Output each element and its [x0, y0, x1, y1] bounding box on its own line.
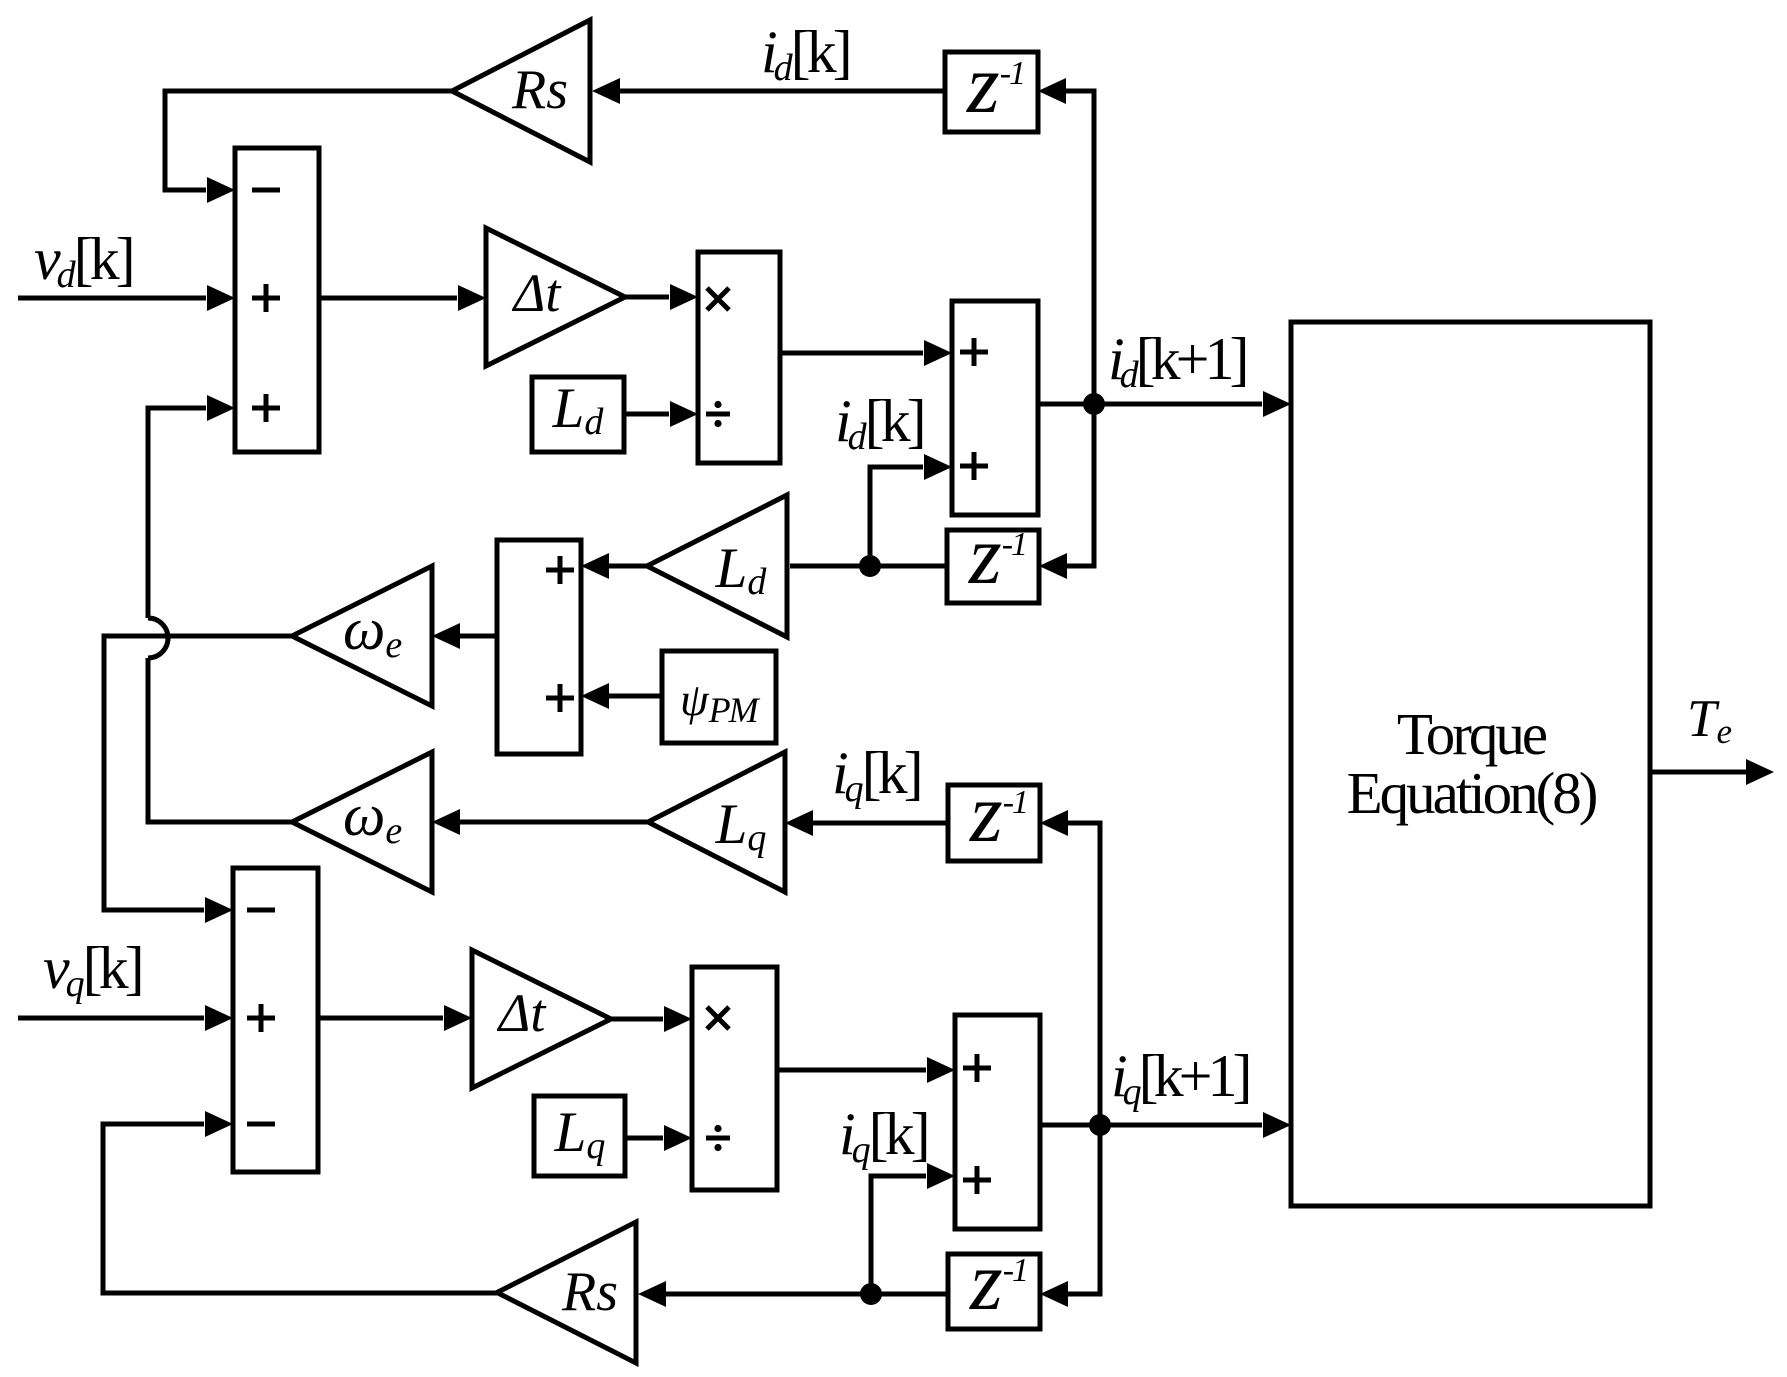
wire gain delta-t to multiplier lower: [611, 1006, 692, 1032]
summer 4 (q axis): [233, 868, 318, 1172]
wire multiplier output to summer 2: [780, 340, 952, 366]
wire psi_PM to summer 3: [581, 683, 662, 709]
delay z^-1 fourth (q axis): [948, 1235, 1040, 1329]
gain Rs (q axis): [497, 1222, 636, 1363]
svg-text:Δt: Δt: [512, 263, 563, 323]
wire gain delta-t to multiplier: [625, 284, 698, 310]
node junction i_d[k+1]: [1083, 393, 1105, 415]
gain omega_e upper: [292, 566, 432, 706]
wire multiplier output to summer 5: [777, 1057, 955, 1083]
label i_d[k] top: [761, 19, 849, 89]
wire i_d[k+1] down to delay z2: [1039, 404, 1094, 579]
label T_e: [1687, 690, 1732, 751]
gain Rs (d axis): [452, 20, 590, 162]
wire L_d to divider input: [624, 401, 698, 427]
wire delay z4 output to gain Rs lower: [638, 1281, 948, 1307]
label i_d[k] middle: [835, 388, 923, 458]
summer 3 (back emf d): [497, 540, 581, 754]
block torque equation: [1291, 322, 1650, 1206]
multiplier-divider block (d axis): [698, 252, 780, 463]
gain omega_e lower: [292, 752, 432, 892]
wire omega_e lower output to summer 1 plus input (hop over): [148, 395, 292, 822]
wire delay z3 output to gain L_q: [785, 810, 948, 836]
gain L_q (cross coupling): [648, 752, 785, 892]
svg-text:vq[k]: vq[k]: [43, 935, 141, 1005]
label i_q[k] row: [832, 740, 920, 810]
node junction i_d[k]: [859, 555, 881, 577]
svg-text:Equation(8): Equation(8): [1347, 760, 1597, 826]
multiplier-divider block (q axis): [692, 967, 777, 1190]
wire Rs output feedback to summer 1 minus input: [165, 91, 452, 203]
svg-text:Torque: Torque: [1397, 701, 1547, 767]
label v_d[k]: [34, 226, 132, 296]
wire i_q[k+1] up to delay z3: [1040, 810, 1100, 1125]
delay z^-1 second (d axis): [947, 509, 1039, 603]
wire i_q[k+1] down to delay z4: [1040, 1125, 1100, 1307]
block L_q constant: [534, 1096, 625, 1176]
svg-text:Rs: Rs: [511, 59, 568, 121]
delay z^-1 first (d axis): [945, 38, 1038, 132]
label v_q[k]: [43, 935, 141, 1005]
gain delta-t (d axis): [486, 228, 625, 366]
delay z^-1 third (q axis): [948, 767, 1040, 861]
wire summer 4 to gain delta-t lower: [318, 1005, 472, 1031]
summer 5 (q axis): [955, 1015, 1040, 1229]
svg-text:Δt: Δt: [497, 983, 548, 1043]
node junction i_q[k+1]: [1089, 1114, 1111, 1136]
block psi_PM constant: [662, 651, 776, 743]
wire summer 2 output i_d[k+1] to torque block: [1038, 391, 1291, 417]
wire summer 1 to gain delta-t: [319, 285, 486, 311]
wire L_q to divider input lower: [625, 1125, 692, 1151]
wire input v_d[k]: [18, 285, 235, 311]
wire Rs lower feedback to summer 4 minus input: [103, 1111, 497, 1293]
gain L_d (cross coupling): [647, 495, 787, 637]
wire summer 3 to gain omega_e upper: [432, 623, 497, 649]
wire delay z2 output to gain L_d: [790, 564, 947, 569]
block L_d constant: [532, 377, 624, 452]
wire output T_e: [1650, 759, 1774, 785]
gain delta-t (q axis): [472, 950, 611, 1088]
wire i_d[k] from delay z1 to gain Rs: [592, 78, 945, 104]
wire summer 5 output i_q[k+1] to torque block: [1040, 1112, 1291, 1138]
wire gain L_d to summer 3: [581, 553, 647, 579]
summer 1 (d axis): [235, 148, 319, 452]
svg-text:vd[k]: vd[k]: [34, 226, 132, 296]
label i_d[k+1]: [1108, 326, 1245, 396]
wire i_q[k] branch to summer 5 plus input: [871, 1163, 955, 1294]
wire i_d[k+1] up to delay z1: [1038, 78, 1094, 404]
summer 2 (d axis): [952, 301, 1038, 515]
node junction i_q[k]: [860, 1283, 882, 1305]
svg-text:Rs: Rs: [561, 1261, 618, 1323]
wire input v_q[k]: [18, 1005, 233, 1031]
label i_q[k] bottom: [839, 1101, 927, 1171]
wire i_d[k] branch to summer 2 plus input: [870, 454, 952, 566]
wire gain L_q output to omega_e lower: [432, 809, 648, 835]
label i_q[k+1]: [1111, 1043, 1248, 1113]
wire omega_e upper output to summer 4 minus input: [104, 636, 292, 923]
